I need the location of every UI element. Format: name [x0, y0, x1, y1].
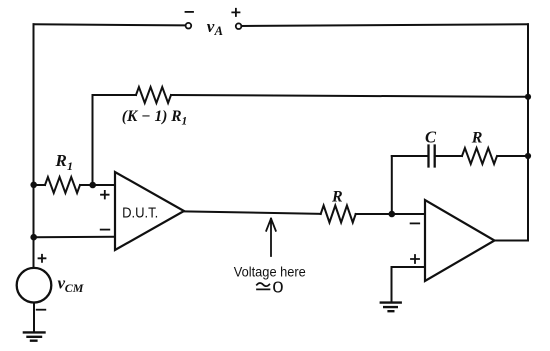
label minus sign at U2 input	[411, 222, 420, 224]
svg-text:R: R	[55, 151, 67, 170]
node junction of CR feedback with right bus	[525, 153, 531, 159]
label R feedback	[471, 129, 483, 146]
wire U2 plus input	[392, 267, 426, 302]
svg-text:CM: CM	[65, 281, 84, 295]
svg-text:R: R	[331, 188, 343, 205]
wire R1 to DUT plus input	[80, 184, 115, 186]
svg-text:Voltage here: Voltage here	[234, 264, 306, 279]
wire vertical from summing node up to CR feedback	[391, 156, 393, 214]
label minus sign of vA	[186, 11, 194, 13]
label plus sign at DUT input	[101, 191, 109, 199]
wire vertical from (K-1)R1 down to DUT plus input	[92, 95, 94, 185]
resistor R1	[45, 177, 80, 193]
wire CR feedback left segment to capacitor	[392, 155, 428, 157]
wire left vertical bus	[33, 24, 35, 268]
label plus sign at U2 input	[411, 255, 419, 263]
node junction on left bus at R1	[30, 182, 37, 189]
node junction on left bus at DUT minus wire	[30, 234, 37, 241]
wire top from vA plus terminal to right corner	[241, 24, 528, 26]
wire left bus to DUT minus input	[34, 236, 116, 238]
source vCM	[17, 268, 52, 303]
svg-text:0: 0	[272, 280, 283, 297]
resistor (K-1)R1	[136, 87, 171, 103]
annotation text voltage here	[234, 264, 306, 279]
label R at U2 input	[331, 188, 343, 205]
svg-text:(K − 1) R: (K − 1) R	[122, 108, 182, 125]
label plus sign of vCM	[39, 255, 46, 262]
wire DUT output to resistor R	[184, 211, 321, 213]
label C	[425, 127, 437, 146]
label plus sign of vA	[232, 9, 239, 16]
svg-text:1: 1	[67, 159, 73, 173]
label minus sign at DUT input	[101, 229, 110, 231]
label R1	[55, 151, 74, 173]
label (K-1)R1	[122, 108, 187, 128]
wire capacitor to feedback resistor R	[435, 155, 462, 157]
node junction at U2 summing point	[389, 211, 396, 218]
svg-text:R: R	[471, 129, 483, 146]
node junction of (K-1)R1 with right bus	[525, 94, 531, 100]
op-amp U1 D.U.T.	[115, 172, 184, 250]
wire resistor R to U2 minus input	[356, 213, 425, 215]
wire (K-1)R1 feedback left segment	[93, 94, 137, 96]
svg-text:C: C	[425, 127, 437, 146]
resistor R feedback	[462, 148, 497, 164]
wire left bus to R1	[34, 184, 46, 186]
ground below vCM	[24, 332, 45, 340]
label vA	[207, 17, 223, 38]
annotation arrow voltage here	[266, 219, 276, 257]
resistor R at U2 inverting input	[321, 206, 356, 223]
capacitor C	[429, 146, 435, 167]
wire top from left corner to vA minus terminal	[34, 24, 186, 25]
op-amp U2	[425, 200, 495, 281]
node junction of R1 with vertical feedback wire	[89, 182, 96, 189]
label D.U.T.	[122, 205, 158, 221]
wire vCM to ground	[33, 303, 35, 333]
label vCM	[58, 273, 84, 295]
svg-text:A: A	[214, 24, 223, 38]
wire right vertical bus	[527, 24, 529, 240]
svg-text:1: 1	[182, 116, 188, 128]
wire (K-1)R1 feedback right segment to right bus	[171, 95, 528, 97]
label minus sign of vCM	[37, 309, 46, 311]
svg-text:D.U.T.: D.U.T.	[122, 205, 158, 221]
ground at U2 plus input	[381, 303, 401, 312]
annotation text approximately zero	[272, 280, 283, 297]
wire U2 output to right bus	[495, 240, 529, 242]
terminal vA minus	[186, 23, 192, 29]
wire feedback resistor to right bus	[498, 155, 529, 157]
svg-text:v: v	[207, 17, 215, 36]
terminal vA plus	[236, 23, 242, 29]
